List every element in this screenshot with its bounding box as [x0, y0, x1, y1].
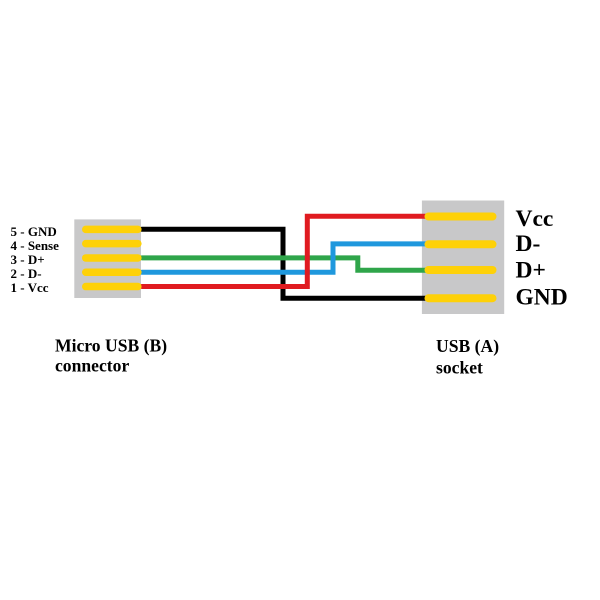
svg-text:Vcc: Vcc [516, 206, 554, 232]
svg-text:socket: socket [436, 357, 483, 377]
svg-text:connector: connector [55, 356, 129, 376]
svg-text:GND: GND [516, 285, 568, 311]
svg-text:D-: D- [516, 231, 541, 257]
svg-text:3 - D+: 3 - D+ [11, 252, 45, 267]
svg-text:Micro USB (B): Micro USB (B) [55, 336, 167, 356]
svg-text:5 - GND: 5 - GND [11, 224, 57, 239]
svg-text:2 - D-: 2 - D- [11, 266, 42, 281]
svg-text:D+: D+ [516, 258, 546, 284]
svg-text:USB (A): USB (A) [436, 336, 499, 356]
svg-text:1 - Vcc: 1 - Vcc [11, 280, 49, 295]
svg-text:4 - Sense: 4 - Sense [11, 238, 60, 253]
